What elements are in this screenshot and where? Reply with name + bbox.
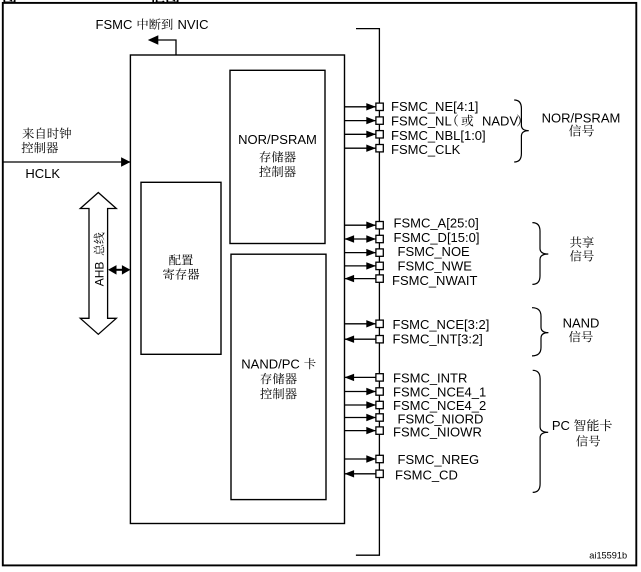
svg-text:AHB: AHB: [93, 262, 107, 287]
wire+pin FSMC_NE[4:1]: [345, 106, 376, 108]
wire+pin FSMC_NBL[1:0]: [345, 133, 376, 135]
NAND/PC-card controller box: [231, 254, 326, 499]
svg-text:FSMC_NL: FSMC_NL: [391, 113, 452, 128]
wire+pin FSMC_NCE4_1: [345, 391, 376, 393]
wire+pin FSMC_NCE4_2: [345, 404, 376, 406]
svg-text:PC: PC: [552, 418, 570, 433]
svg-text:FSMC_NWAIT: FSMC_NWAIT: [392, 273, 478, 288]
config registers box: [141, 182, 221, 354]
brace NOR/PSRAM signals: [514, 100, 529, 162]
brace PC-card signals: [533, 370, 549, 492]
wire+pin FSMC_INT[3:2]: [345, 338, 376, 340]
svg-text:FSMC_NBL[1:0]: FSMC_NBL[1:0]: [391, 128, 486, 143]
AHB bus double arrow: [80, 193, 116, 335]
svg-text:FSMC_INT[3:2]: FSMC_INT[3:2]: [393, 331, 483, 346]
svg-text:FSMC_CLK: FSMC_CLK: [391, 142, 461, 157]
svg-text:NAND/PC: NAND/PC: [241, 356, 300, 371]
wire+pin FSMC_CD: [345, 473, 376, 475]
wire+pin FSMC_NREG: [345, 458, 376, 460]
wire+pin FSMC_NL (or NADV): [345, 120, 376, 122]
svg-text:FSMC_NWE: FSMC_NWE: [398, 259, 473, 274]
svg-text:ai15591b: ai15591b: [589, 551, 627, 561]
HCLK clock wire: [3, 161, 130, 163]
svg-text:FSMC_NIOWR: FSMC_NIOWR: [393, 425, 482, 440]
brace shared signals: [532, 223, 548, 285]
svg-text:FSMC: FSMC: [96, 17, 133, 32]
svg-text:FSMC_NOE: FSMC_NOE: [398, 244, 471, 259]
wire+pin FSMC_NOE: [345, 252, 376, 254]
label AHB bus (rotated): [93, 232, 107, 286]
svg-text:FSMC_D[15:0]: FSMC_D[15:0]: [394, 230, 480, 245]
svg-text:FSMC_INTR: FSMC_INTR: [393, 370, 467, 385]
wire+pin FSMC_INTR: [345, 376, 376, 378]
brace NAND signals: [532, 308, 548, 356]
interrupt wire to NVIC: [157, 40, 176, 55]
label from clock controller: [22, 128, 34, 139]
svg-text:FSMC_CD: FSMC_CD: [395, 467, 458, 482]
svg-text:FSMC_NE[4:1]: FSMC_NE[4:1]: [391, 99, 478, 114]
svg-text:HCLK: HCLK: [25, 166, 60, 181]
svg-text:NVIC: NVIC: [178, 17, 209, 32]
wire+pin FSMC_NWE: [345, 265, 376, 267]
FSMC pin boundary line: [356, 29, 380, 556]
wire+pin FSMC_D[15:0]: [345, 238, 376, 240]
wire+pin FSMC_A[25:0]: [345, 224, 376, 226]
label shared signals: [570, 236, 581, 247]
AHB to FSMC double arrow: [112, 269, 126, 271]
svg-text:NOR/PSRAM: NOR/PSRAM: [238, 132, 317, 147]
FSMC main block box: [130, 55, 344, 524]
svg-text:FSMC_NCE[3:2]: FSMC_NCE[3:2]: [393, 317, 490, 332]
svg-text:NAND: NAND: [563, 315, 600, 330]
wire+pin FSMC_NWAIT: [345, 278, 376, 280]
svg-text:FSMC_NREG: FSMC_NREG: [398, 452, 480, 467]
wire+pin FSMC_NIORD: [345, 417, 376, 419]
wire+pin FSMC_CLK: [345, 147, 376, 149]
wire+pin FSMC_NCE[3:2]: [345, 323, 376, 325]
NOR/PSRAM controller box: [230, 70, 325, 243]
label config registers: [169, 254, 181, 265]
svg-text:NADV: NADV: [482, 113, 518, 128]
svg-text:NOR/PSRAM: NOR/PSRAM: [542, 110, 621, 125]
wire+pin FSMC_NIOWR: [345, 430, 376, 432]
caption sliver (cut-off figure title): [3, 0, 16, 3]
svg-text:FSMC_A[25:0]: FSMC_A[25:0]: [394, 215, 479, 230]
